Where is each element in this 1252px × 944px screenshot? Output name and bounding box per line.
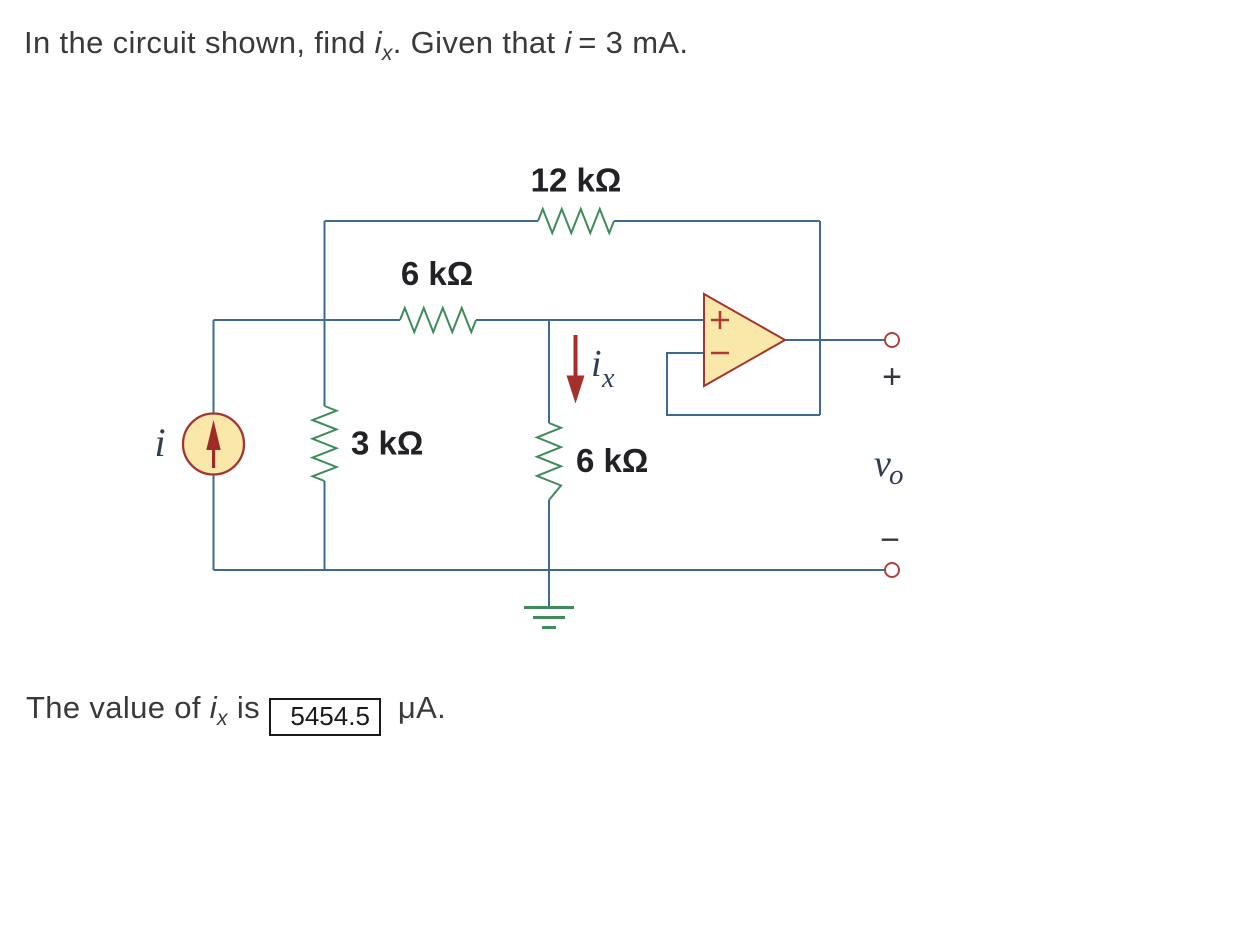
- svg-text:i: i: [591, 343, 602, 385]
- op-amp U1 plus input mark: [711, 311, 729, 329]
- wire: top net from node A to feedback vertical: [325, 220, 821, 222]
- svg-text:3 kΩ: 3 kΩ: [351, 425, 423, 462]
- wire: center branch x=549: [548, 320, 550, 570]
- current source I1 circle: [183, 414, 244, 475]
- ground symbol: [524, 570, 574, 628]
- current source I1 arrow: [206, 420, 220, 468]
- svg-text:+: +: [882, 358, 902, 396]
- svg-text:x: x: [601, 363, 615, 394]
- svg-text:6 kΩ: 6 kΩ: [401, 255, 473, 292]
- op-amp U1 minus input mark: [711, 352, 729, 355]
- wire: bottom net: [214, 569, 885, 571]
- question text: [24, 25, 688, 66]
- terminal: output negative: [885, 563, 899, 577]
- answer line with input box: [26, 690, 446, 736]
- resistor R 6k vertical zigzag: [537, 423, 561, 500]
- wire: op-amp output: [785, 339, 884, 341]
- terminal: output positive: [885, 333, 899, 347]
- wire: middle net (left to noninverting input): [214, 319, 705, 321]
- svg-text:6 kΩ: 6 kΩ: [576, 442, 648, 479]
- svg-text:−: −: [880, 521, 900, 559]
- wire: feedback right vertical from top net down to box: [819, 221, 821, 415]
- svg-text:o: o: [889, 459, 904, 491]
- resistor R 12k zigzag: [538, 209, 614, 233]
- current arrow ix: [567, 335, 585, 404]
- resistor R 6k horizontal zigzag: [400, 308, 476, 332]
- wire: feedback loop to inverting input: [667, 353, 820, 415]
- wire: node A vertical branch x=324: [324, 221, 326, 570]
- wire: left source branch x=213: [213, 320, 215, 570]
- svg-text:i: i: [154, 420, 165, 465]
- resistor R 3k vertical zigzag: [313, 406, 337, 481]
- svg-text:12 kΩ: 12 kΩ: [531, 162, 622, 199]
- op-amp U1 body: [704, 294, 785, 386]
